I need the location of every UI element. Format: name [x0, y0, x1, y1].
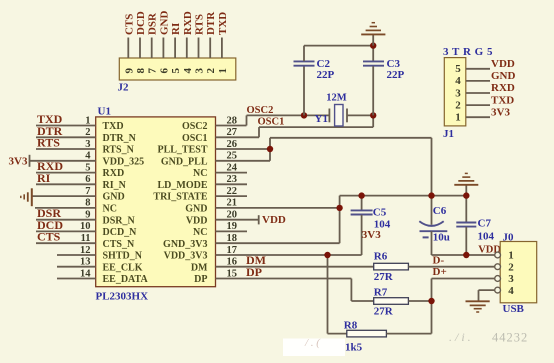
svg-text:RTS_N: RTS_N	[103, 145, 135, 156]
svg-text:RTS: RTS	[37, 136, 60, 150]
svg-text:RI_N: RI_N	[103, 180, 127, 191]
svg-text:TRI_STATE: TRI_STATE	[153, 192, 207, 203]
connector J1 body	[444, 58, 466, 126]
wire 3V3 riser from U1 pin 17 to R8	[327, 255, 329, 334]
wire U1 pin 3	[36, 148, 96, 150]
node junction C5 top on GND rail	[358, 192, 364, 198]
svg-text:C6: C6	[433, 205, 447, 217]
node junction C7 bottom on VDD line	[463, 252, 469, 258]
svg-text:Y1: Y1	[315, 113, 328, 125]
wire J2 pin 7 (DSR)	[151, 38, 153, 59]
svg-text:CTS: CTS	[37, 230, 61, 244]
svg-text:RXD: RXD	[491, 82, 515, 94]
wire VDD line C6/C7 to J0 pin 1	[432, 254, 495, 256]
resistor R8 1k5	[347, 330, 387, 337]
svg-text:PLL_TEST: PLL_TEST	[157, 145, 207, 156]
svg-text:2: 2	[205, 68, 217, 74]
node junction R7/D+ riser	[428, 298, 434, 304]
svg-text:DP: DP	[194, 274, 207, 285]
svg-text:SHTD_N: SHTD_N	[103, 251, 143, 262]
svg-text:CTS_N: CTS_N	[103, 239, 135, 250]
svg-text:NC: NC	[193, 227, 207, 238]
wire U1 pin 8 stub	[35, 207, 96, 209]
crystal Y1 12M	[328, 109, 330, 123]
wire U1 pin 26 PLL_TEST	[216, 148, 271, 150]
pin circle 2 of J0	[495, 264, 501, 270]
svg-text:3: 3	[194, 68, 206, 74]
svg-text:1k5: 1k5	[345, 342, 363, 354]
svg-text:OSC2: OSC2	[247, 105, 274, 116]
svg-text:3V3: 3V3	[9, 155, 28, 167]
ground symbol middle	[465, 185, 467, 196]
svg-text:27R: 27R	[374, 271, 394, 283]
svg-text:RI: RI	[37, 171, 51, 185]
wire J1 pin 5	[466, 68, 490, 70]
pin circle 3 of J0	[495, 276, 501, 282]
wire U1 pin 14 stub	[57, 278, 96, 280]
wire U1 pin 22 stub	[216, 195, 248, 197]
svg-text:R7: R7	[374, 287, 388, 299]
svg-text:C7: C7	[478, 217, 492, 229]
wire U1 pin 4 to 3V3 power port	[30, 160, 96, 162]
wire U1 pin 9	[36, 219, 96, 221]
wire GND rail	[340, 195, 467, 197]
svg-text:3: 3	[508, 273, 514, 285]
svg-text:R6: R6	[374, 251, 388, 263]
svg-text:27R: 27R	[374, 305, 394, 317]
capacitor C2 22P	[303, 66, 305, 115]
svg-text:22P: 22P	[387, 69, 405, 81]
svg-text:EE_CLK: EE_CLK	[103, 262, 143, 273]
svg-text:DM: DM	[191, 262, 208, 273]
svg-text:DTR: DTR	[205, 11, 217, 35]
svg-text:9: 9	[123, 68, 135, 74]
power port VDD at U1 pin 20	[258, 215, 260, 224]
IC U1 PL2303HX body	[96, 117, 216, 287]
wire U1 pin 23 stub	[216, 183, 248, 185]
wire U1 pin 12 stub	[57, 254, 96, 256]
svg-text:U1: U1	[98, 106, 111, 118]
pin circle 1 of J0	[495, 252, 501, 258]
svg-text:DSR: DSR	[147, 12, 159, 35]
svg-text:4: 4	[182, 68, 194, 74]
svg-text:D+: D+	[433, 266, 447, 278]
wire U1 pin 24 stub	[216, 172, 248, 174]
svg-text:GND: GND	[491, 70, 516, 82]
wire R6 to J0 pin 2 (D-)	[408, 266, 494, 268]
wire J1 pin 2	[466, 104, 490, 106]
svg-text:OSC1: OSC1	[258, 117, 285, 128]
svg-text:LD_MODE: LD_MODE	[158, 180, 208, 191]
svg-text:DCD_N: DCD_N	[103, 227, 138, 238]
ground symbol at U1 pin 7	[31, 188, 33, 206]
polarity mark of C6	[423, 236, 429, 238]
svg-text:GND: GND	[103, 192, 125, 203]
svg-text:TXD: TXD	[103, 121, 124, 132]
wire U1 pin 27 OSC1	[216, 136, 260, 138]
svg-text:3 T R G 5: 3 T R G 5	[443, 46, 493, 58]
wire GND rail drop to U1 pins 21/18	[339, 196, 341, 244]
svg-text:EE_DATA: EE_DATA	[103, 274, 149, 285]
svg-text:J2: J2	[118, 82, 130, 94]
svg-text:DCD: DCD	[135, 11, 147, 35]
wire U1 pin 18 GND_3V3 to GND rail	[216, 242, 340, 244]
svg-text:GND: GND	[158, 11, 170, 36]
wire U1 pin 20 VDD	[216, 219, 259, 221]
wire U1 pin 10	[36, 230, 96, 232]
node top ground junction	[370, 42, 376, 48]
svg-text:2: 2	[455, 99, 461, 111]
svg-text:RXD: RXD	[103, 168, 125, 179]
svg-text:R8: R8	[344, 319, 358, 331]
svg-text:NC: NC	[193, 168, 207, 179]
resistor R6 27R	[374, 263, 409, 270]
wire U1 pin 13 stub	[57, 266, 96, 268]
wire J1 pin 1	[466, 116, 490, 118]
svg-text:CTS: CTS	[123, 14, 135, 35]
svg-text:DSR_N: DSR_N	[103, 215, 136, 226]
svg-text:1: 1	[217, 68, 229, 74]
wire U1 pin 2	[36, 136, 96, 138]
svg-text:OSC1: OSC1	[182, 133, 208, 144]
svg-text:1: 1	[455, 112, 461, 124]
svg-text:DTR_N: DTR_N	[103, 133, 137, 144]
svg-text:VDD: VDD	[186, 215, 208, 226]
wire R8 right to D+ riser	[386, 333, 431, 335]
wire U1 pin 7 to ground	[32, 195, 96, 197]
svg-text:DP: DP	[246, 265, 262, 279]
svg-text:4: 4	[508, 285, 514, 297]
resistor R7 27R	[374, 298, 409, 305]
watermark white patch	[283, 339, 345, 357]
svg-text:. / i .: . / i .	[449, 330, 471, 344]
svg-text:RI: RI	[170, 23, 182, 35]
wire U1 pin 11	[36, 242, 96, 244]
capacitor C3 22P	[372, 46, 374, 62]
wire J2 pin 6 (GND)	[162, 38, 164, 59]
svg-text:5: 5	[455, 63, 461, 75]
wire U1 pin 6	[36, 183, 96, 185]
svg-text:NC: NC	[103, 204, 117, 215]
capacitor C5 104	[361, 196, 363, 211]
node junction pins 25/26	[267, 146, 273, 152]
svg-text:VDD_3V3: VDD_3V3	[164, 251, 208, 262]
wire J1 pin 4	[466, 80, 490, 82]
node junction C6 top on GND rail	[428, 192, 434, 198]
ground symbol at J0 pin 4	[466, 300, 490, 302]
svg-text:GND_3V3: GND_3V3	[163, 239, 207, 250]
capacitor C6 10u electrolytic	[431, 196, 433, 225]
wire U1 pin 15 DP to R7	[216, 278, 352, 280]
wire U1 pin 19 stub	[216, 230, 248, 232]
wire U1 pin 21 GND	[216, 207, 340, 209]
svg-text:12M: 12M	[326, 93, 347, 104]
svg-text:USB: USB	[503, 303, 525, 315]
node junction C7 top / ground stem	[463, 192, 469, 198]
svg-text:3V3: 3V3	[491, 106, 510, 118]
svg-text:J1: J1	[443, 128, 454, 140]
svg-text:RTS: RTS	[194, 14, 206, 35]
wire J2 pin 8 (DCD)	[139, 38, 141, 59]
svg-text:44232: 44232	[492, 331, 528, 345]
wire J2 pin 5 (RI)	[174, 38, 176, 59]
connector J2 body	[119, 58, 236, 80]
wire U1 pin 5	[36, 172, 96, 174]
svg-text:OSC2: OSC2	[182, 121, 208, 132]
svg-text:10u: 10u	[433, 232, 450, 244]
wire top rail C2-C3-ground	[304, 45, 373, 47]
wire crystal right to OSC1 riser	[347, 114, 373, 116]
wire J2 pin 3 (RTS)	[198, 38, 200, 59]
connector J0 USB body	[500, 242, 537, 303]
svg-text:TXD: TXD	[217, 12, 229, 35]
svg-text:VDD: VDD	[491, 58, 515, 70]
svg-text:8: 8	[135, 68, 147, 74]
svg-text:RXD: RXD	[182, 11, 194, 35]
svg-text:C5: C5	[373, 206, 387, 218]
wire U1 pin 25 GND_PLL to GND rail	[216, 160, 271, 162]
ground symbol top right	[372, 35, 374, 46]
wire J2 pin 4 (RXD)	[186, 38, 188, 59]
node OSC2 junction at C2	[301, 112, 307, 118]
wire J1 pin 3	[466, 92, 490, 94]
svg-text:GND: GND	[185, 204, 207, 215]
node junction GND / pin 21	[336, 205, 342, 211]
wire J2 pin 2 (DTR)	[209, 38, 211, 59]
wire J2 pin 9 (CTS)	[127, 38, 129, 59]
svg-text:VDD: VDD	[262, 214, 286, 226]
svg-text:GND_PLL: GND_PLL	[161, 156, 208, 167]
svg-text:6: 6	[158, 68, 170, 74]
node OSC1 junction at C3	[370, 112, 376, 118]
wire D+ from J0 pin 3 down to R7/R8	[432, 278, 495, 280]
svg-text:7: 7	[147, 68, 159, 74]
svg-text:4: 4	[455, 75, 461, 87]
svg-text:PL2303HX: PL2303HX	[96, 290, 149, 302]
wire J2 pin 1 (TXD)	[221, 38, 223, 59]
node junction pin17/R8 riser	[324, 252, 330, 258]
svg-text:1: 1	[508, 250, 514, 262]
wire U1 pin 17 VDD_3V3 / 3V3 net	[216, 254, 362, 256]
svg-text:/ . (: / . (	[304, 337, 321, 349]
wire U1 pin 16 DM to R6	[216, 266, 374, 268]
svg-text:2: 2	[508, 261, 514, 273]
wire J0 pin 4 to ground	[479, 289, 495, 291]
svg-text:D-: D-	[433, 254, 445, 266]
svg-text:3: 3	[455, 87, 461, 99]
capacitor C7 104	[465, 196, 467, 223]
wire R7 right to D+ riser	[408, 300, 431, 302]
svg-text:104: 104	[478, 231, 495, 243]
svg-text:5: 5	[170, 68, 182, 74]
svg-text:VDD_325: VDD_325	[103, 156, 145, 167]
power port 3V3 at U1 pin 4	[29, 155, 31, 167]
svg-text:22P: 22P	[317, 69, 335, 81]
wire U1 pin 1	[36, 125, 96, 127]
svg-text:TXD: TXD	[491, 94, 514, 106]
pin circle 4 of J0	[495, 287, 501, 293]
svg-text:3V3: 3V3	[362, 229, 381, 241]
wire U1 pin 28 OSC2	[216, 125, 247, 127]
